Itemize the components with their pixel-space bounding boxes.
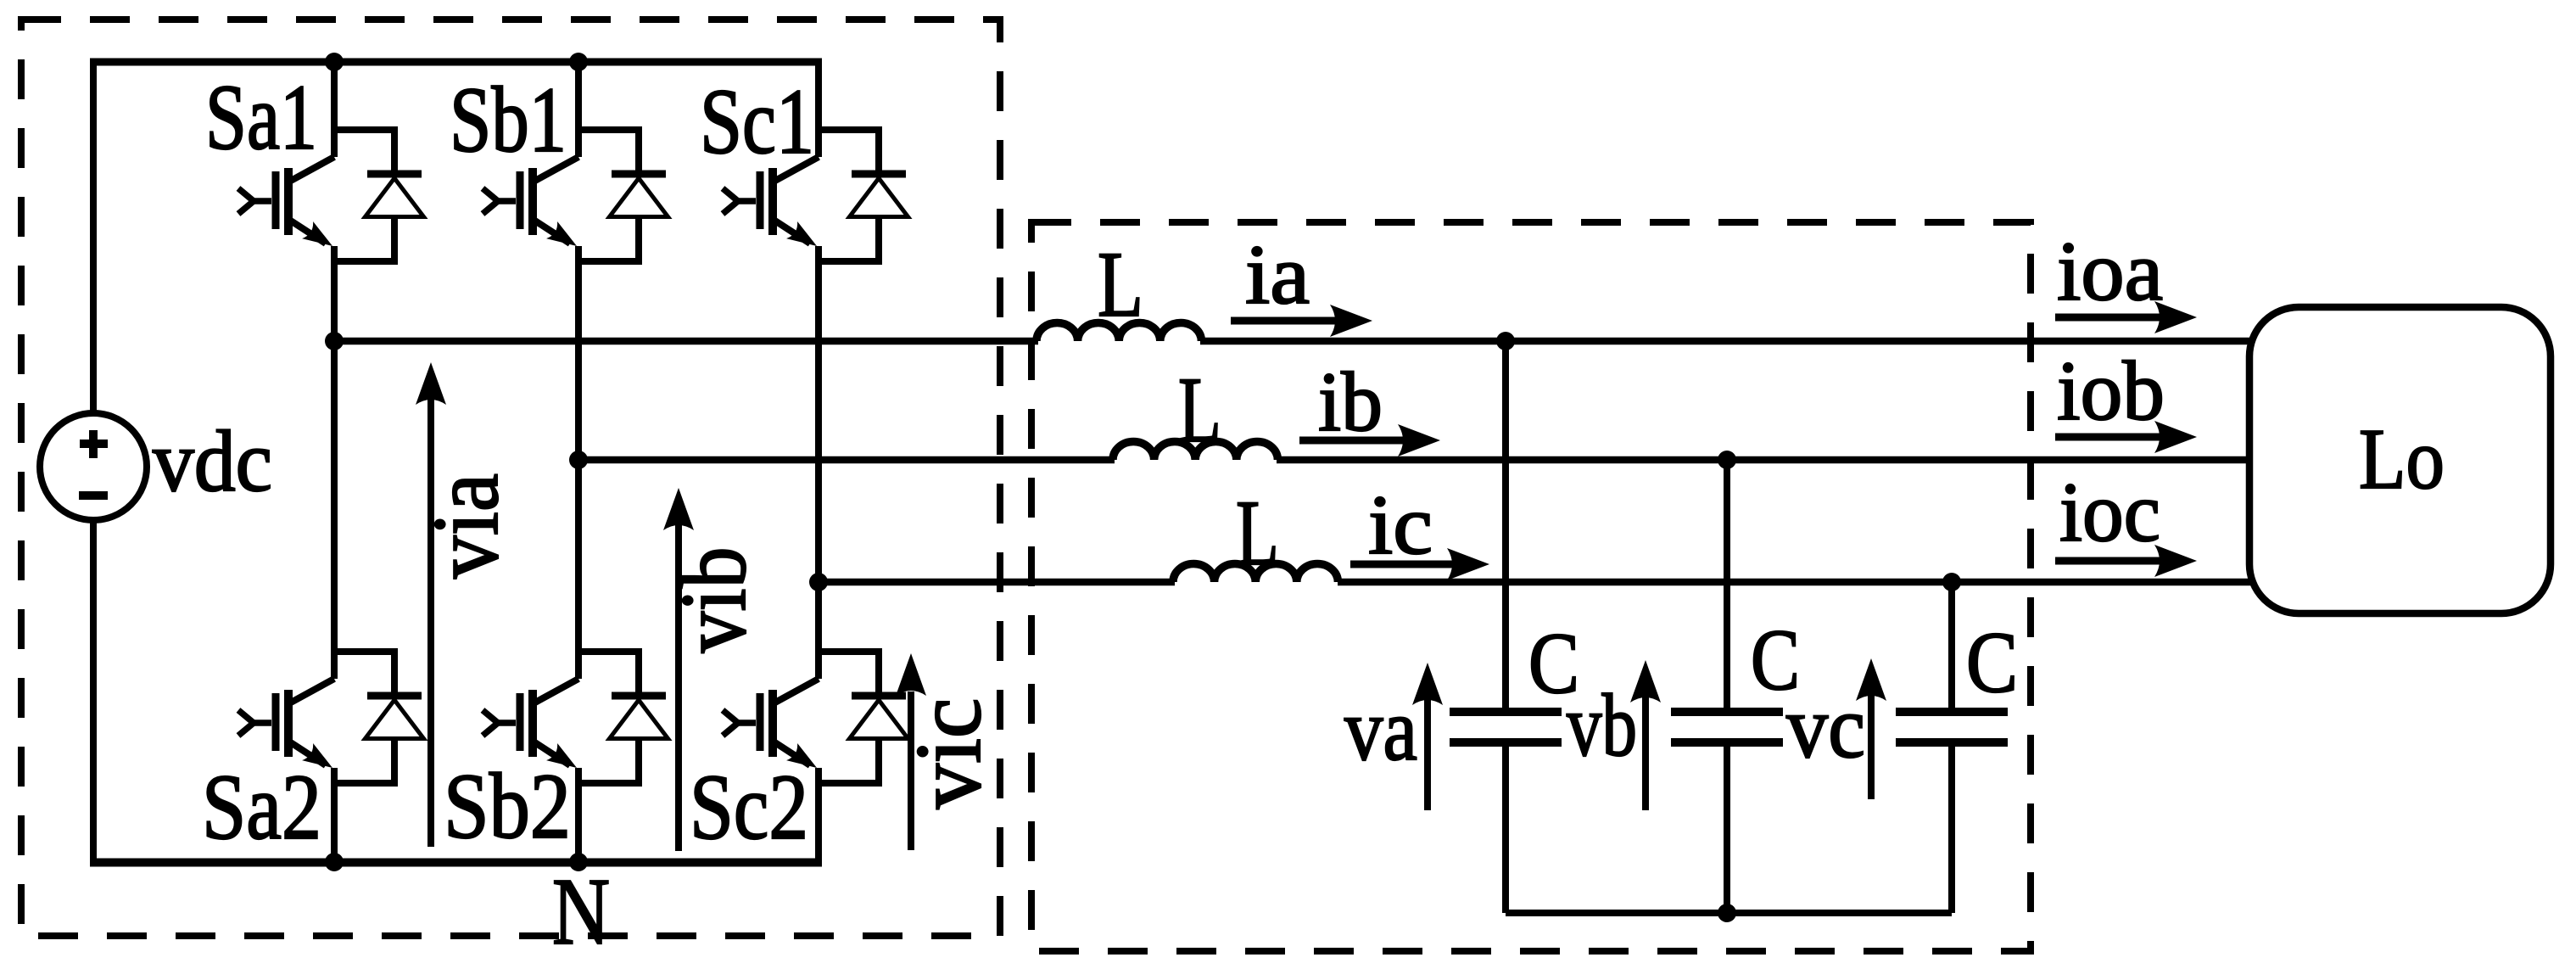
svg-text:ioc: ioc: [2059, 465, 2160, 559]
label Sa2: [202, 755, 321, 859]
label L (phase a): [1098, 232, 1143, 336]
node: phase b / capacitor B tap: [1718, 451, 1736, 469]
arrow vc: [1856, 658, 1886, 799]
arrow vib: [663, 488, 694, 851]
arrow ioc: [2055, 545, 2197, 577]
diode across Sa1: [334, 130, 424, 261]
diode across Sb2: [578, 652, 668, 783]
svg-text:Sa1: Sa1: [205, 65, 317, 169]
label vib (rotated): [662, 547, 765, 653]
svg-text:L: L: [1098, 232, 1143, 336]
node: phase c / capacitor C tap: [1942, 573, 1961, 591]
svg-text:ia: ia: [1245, 227, 1310, 322]
svg-text:vdc: vdc: [153, 413, 272, 510]
label C (phase c): [1966, 614, 2018, 711]
node: phase a / leg A: [325, 332, 344, 350]
voltage source vdc circle: [40, 413, 147, 520]
label Sa1: [205, 65, 317, 169]
wire from vdc+ to top DC bus: [90, 62, 97, 413]
capacitor C phase c: [1896, 582, 2008, 913]
node: phase b / leg B: [569, 451, 588, 469]
label Sc1: [700, 70, 814, 173]
transistor Sb2 (IGBT): [483, 460, 583, 862]
label vic (rotated): [897, 698, 1000, 809]
wire bottom DC bus: [90, 859, 822, 867]
node: phase c / leg C: [809, 573, 828, 591]
label Lo: [2359, 412, 2445, 507]
wire phase b: leg B to inductor: [578, 456, 1115, 464]
svg-text:Sc1: Sc1: [700, 70, 814, 173]
node: top bus / leg A: [325, 53, 344, 71]
svg-text:N: N: [552, 859, 610, 963]
vdc minus sign: [79, 491, 108, 500]
svg-text:vic: vic: [897, 698, 1000, 809]
svg-text:Lo: Lo: [2359, 412, 2445, 507]
diode across Sa2: [334, 652, 424, 783]
capacitor C phase b: [1671, 460, 1783, 913]
capacitor C phase a: [1450, 341, 1562, 913]
load Lo box: [2249, 307, 2551, 613]
svg-text:Sa2: Sa2: [202, 755, 321, 859]
label Sb2: [444, 754, 571, 858]
arrow va: [1412, 663, 1443, 810]
svg-text:L: L: [1236, 481, 1279, 585]
svg-text:C: C: [1966, 614, 2018, 711]
label vc: [1786, 677, 1865, 776]
label via (rotated): [414, 473, 517, 579]
diode across Sc2: [819, 652, 908, 783]
label ioa: [2057, 224, 2163, 318]
diode across Sb1: [578, 130, 668, 261]
svg-text:vib: vib: [662, 547, 765, 653]
svg-text:vc: vc: [1786, 677, 1865, 776]
arrow vb: [1630, 660, 1661, 810]
svg-text:vb: vb: [1567, 675, 1637, 775]
label Sb1: [450, 68, 567, 171]
inductor L phase c: [1173, 564, 1338, 583]
label C (phase a): [1528, 615, 1579, 712]
svg-text:va: va: [1344, 680, 1417, 779]
svg-text:ib: ib: [1318, 355, 1383, 449]
node: top bus / leg B: [569, 53, 588, 71]
inductor L phase b: [1113, 442, 1277, 461]
label L (phase b): [1178, 358, 1221, 462]
label ioc: [2059, 465, 2160, 559]
transistor Sc2 (IGBT): [723, 582, 823, 862]
label Sc2: [690, 755, 808, 859]
wire phase a: inductor to load: [1200, 338, 2253, 345]
label N: [552, 859, 610, 963]
arrow ioa: [2055, 301, 2197, 333]
transistor Sa2 (IGBT): [238, 341, 338, 862]
arrow vic: [896, 653, 926, 850]
dashed box: inverter section border: [21, 20, 1000, 936]
label L (phase c): [1236, 481, 1279, 585]
node N: bottom bus / leg B: [569, 853, 588, 871]
arrow via: [416, 362, 446, 847]
svg-text:ioa: ioa: [2057, 224, 2163, 318]
vdc plus sign: [80, 430, 108, 458]
arrow ia: [1231, 305, 1372, 337]
svg-text:Sb1: Sb1: [450, 68, 567, 171]
svg-text:iob: iob: [2057, 344, 2165, 438]
dashed box: LC filter section border: [1031, 222, 2031, 951]
svg-text:Sb2: Sb2: [444, 754, 571, 858]
node N: bottom bus / leg A: [325, 853, 344, 871]
transistor Sb1 (IGBT): [483, 62, 583, 460]
wire phase c: leg C to inductor: [819, 579, 1175, 586]
wire from vdc- to bottom DC bus: [90, 520, 97, 862]
svg-text:L: L: [1178, 358, 1221, 462]
transistor Sc1 (IGBT): [723, 62, 823, 582]
arrow ib: [1299, 424, 1440, 456]
label vb: [1567, 675, 1637, 775]
arrow iob: [2055, 421, 2197, 453]
wire capacitor common rail: [1506, 910, 1952, 916]
svg-text:via: via: [414, 473, 517, 579]
inductor L phase a: [1037, 323, 1201, 342]
wire top DC bus: [90, 59, 822, 66]
node: cap rail junction: [1718, 904, 1736, 922]
label ib: [1318, 355, 1383, 449]
label va: [1344, 680, 1417, 779]
label ia: [1245, 227, 1310, 322]
wire phase b: inductor to load: [1277, 456, 2253, 464]
wire phase c: inductor to load: [1338, 579, 2253, 586]
transistor Sa1 (IGBT): [238, 62, 338, 341]
label vdc: [153, 413, 272, 510]
label C (phase b): [1751, 612, 1800, 708]
label ic: [1368, 478, 1433, 572]
wire phase a: leg A to inductor: [334, 338, 1038, 345]
svg-text:Sc2: Sc2: [690, 755, 808, 859]
label iob: [2057, 344, 2165, 438]
node: phase a / capacitor A tap: [1496, 332, 1515, 350]
svg-text:ic: ic: [1368, 478, 1433, 572]
diode across Sc1: [819, 130, 908, 261]
arrow ic: [1350, 548, 1489, 580]
